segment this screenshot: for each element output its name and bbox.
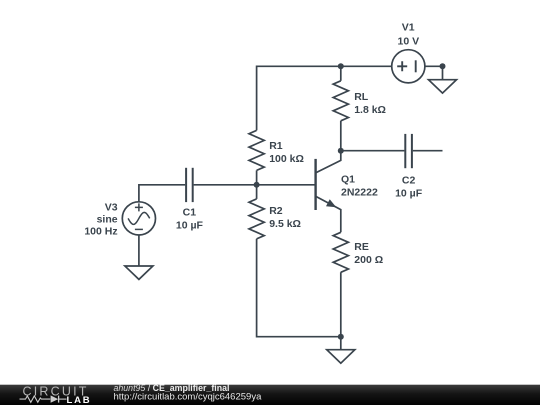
- svg-text:1.8 kΩ: 1.8 kΩ: [354, 104, 386, 116]
- wire RL bottom to collector node: [340, 121, 342, 151]
- node collector junction: [338, 148, 344, 154]
- wire C1 right to base node to Q1 base: [194, 184, 316, 186]
- wire collector node to C2: [341, 150, 405, 152]
- wire C2 right open lead: [413, 150, 443, 152]
- node bottom rail / ground: [338, 334, 344, 340]
- resistor R1 symbol: [249, 130, 264, 170]
- svg-text:100 kΩ: 100 kΩ: [269, 153, 304, 165]
- label RL 1.8 kOhm: [354, 91, 386, 116]
- node top rail / RL: [338, 63, 344, 69]
- resistor RL symbol: [333, 81, 348, 121]
- label R1 100 kOhm: [269, 140, 304, 165]
- svg-text:R2: R2: [269, 205, 283, 217]
- ground (V1): [429, 66, 457, 93]
- svg-text:http://circuitlab.com/cyqjc646: http://circuitlab.com/cyqjc646259ya: [114, 392, 263, 403]
- voltage source V1 symbol: [392, 50, 425, 83]
- wire V3 top to main horizontal: [139, 185, 185, 202]
- svg-text:10 V: 10 V: [397, 35, 419, 47]
- svg-text:sine: sine: [97, 214, 118, 226]
- transistor Q1 2N2222: [316, 151, 341, 233]
- svg-text:100 Hz: 100 Hz: [84, 226, 117, 238]
- label RE 200 Ohm: [354, 241, 383, 266]
- wire V1 right to ground node: [425, 65, 443, 67]
- resistor R2 symbol: [249, 199, 264, 239]
- wire RE bottom to bottom rail: [340, 272, 342, 336]
- label V3 sine 100 Hz: [84, 201, 117, 237]
- svg-text:2N2222: 2N2222: [341, 187, 378, 199]
- wire V3 bottom to ground: [138, 235, 140, 266]
- resistor RE symbol: [333, 232, 348, 272]
- label C2 10 uF: [395, 174, 423, 199]
- ground (bottom): [327, 337, 355, 364]
- wire R1 bottom to base node: [256, 170, 258, 184]
- label V1 10 V: [397, 22, 419, 48]
- capacitor C2 symbol: [405, 134, 412, 168]
- ground (V3): [125, 266, 153, 279]
- svg-text:LAB: LAB: [67, 395, 92, 405]
- svg-text:Q1: Q1: [341, 174, 355, 186]
- wire R2 bottom to bottom rail: [257, 239, 341, 337]
- svg-text:RL: RL: [354, 91, 369, 103]
- node base junction: [254, 182, 260, 188]
- wire top rail from R1 top to V1: [257, 66, 392, 130]
- svg-text:200 Ω: 200 Ω: [354, 254, 383, 266]
- footer text url: [114, 392, 263, 403]
- svg-text:10 µF: 10 µF: [395, 187, 423, 199]
- label Q1 2N2222: [341, 174, 378, 199]
- svg-text:C1: C1: [183, 207, 197, 219]
- footer text ahunt95 / CE_amplifier_final: [114, 383, 230, 393]
- label C1 10 uF: [176, 207, 204, 232]
- svg-text:10 µF: 10 µF: [176, 220, 204, 232]
- node V1 minus / ground: [440, 63, 446, 69]
- svg-text:V3: V3: [105, 201, 118, 213]
- capacitor C1 symbol: [186, 168, 193, 202]
- wire R2 top lead: [256, 185, 258, 199]
- svg-text:R1: R1: [269, 140, 283, 152]
- CircuitLab logo: [20, 384, 92, 405]
- footer bar: [0, 385, 540, 405]
- svg-text:C2: C2: [402, 174, 416, 186]
- label R2 9.5 kOhm: [269, 205, 301, 230]
- voltage source V3 symbol: [122, 202, 155, 235]
- svg-text:RE: RE: [354, 241, 369, 253]
- wire RL top lead: [340, 66, 342, 81]
- svg-text:V1: V1: [402, 22, 415, 34]
- svg-text:9.5 kΩ: 9.5 kΩ: [269, 218, 301, 230]
